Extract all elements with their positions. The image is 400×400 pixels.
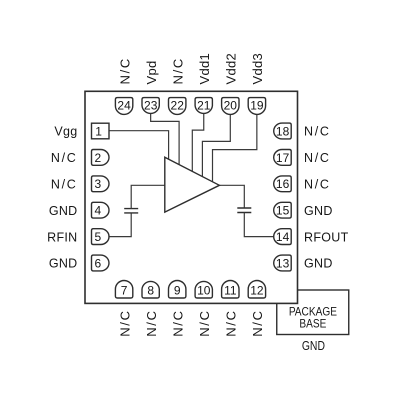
pin 17 pad (N/C) [274,150,292,166]
svg-text:15: 15 [276,204,290,218]
wire: pin 20 Vdd2 to amplifier [202,114,230,178]
svg-text:3: 3 [94,177,101,191]
pin 15 pad (GND) [274,202,292,218]
svg-text:23: 23 [144,99,158,113]
wire: C2 to pin 14 RFOUT [244,213,273,237]
net label Vgg (pin 1) [54,125,77,139]
svg-text:GND: GND [49,257,78,271]
net label N/C (pin 9) [170,309,185,337]
net label Vdd2 (pin 20) [224,53,239,85]
pin 12 pad (N/C) [248,281,265,299]
net label RFOUT (pin 14) [304,230,349,244]
pin 20 pad (Vdd2) [222,98,239,115]
svg-text:BASE: BASE [299,318,326,331]
svg-text:N/C: N/C [117,309,132,337]
svg-text:10: 10 [197,283,211,297]
net label GND (pin 15) [304,204,333,218]
svg-text:N/C: N/C [224,309,239,337]
svg-text:12: 12 [250,283,264,297]
svg-text:19: 19 [250,99,264,113]
wire: amplifier output to C2 [218,185,245,208]
svg-text:11: 11 [224,283,237,297]
package base label text [289,306,337,331]
pin 19 pad (Vdd3) [248,98,265,115]
net label N/C (pin 2) [51,151,78,165]
pin 9 pad (N/C) [169,281,186,298]
svg-text:22: 22 [171,99,185,113]
net label N/C (pin 11) [224,309,239,337]
svg-text:GND: GND [304,204,333,218]
package outline (QFN-24 body) [85,91,298,303]
net label RFIN (pin 5) [47,230,77,244]
pin 6 pad (GND) [92,255,109,271]
ground net label GND (package base) [302,339,325,353]
net label N/C (pin 3) [51,178,78,192]
net label N/C (pin 17) [304,151,331,165]
svg-text:N/C: N/C [51,151,78,165]
svg-text:N/C: N/C [304,151,331,165]
svg-text:GND: GND [302,339,325,353]
svg-text:GND: GND [49,204,78,218]
pin 16 pad (N/C) [274,176,292,192]
svg-text:N/C: N/C [170,57,185,85]
pin 7 pad (N/C) [115,281,132,298]
svg-text:8: 8 [147,283,154,297]
net label N/C (pin 16) [304,178,331,192]
net label GND (pin 13) [304,257,333,271]
pin 3 pad (N/C) [92,176,110,192]
pin 5 pad (RFIN) [92,229,110,245]
svg-text:Vdd3: Vdd3 [250,53,265,85]
svg-text:N/C: N/C [304,125,331,139]
svg-text:7: 7 [121,283,128,297]
wire: pin 19 Vdd3 to amplifier [213,114,257,183]
wire: C1 to amplifier input [131,185,166,208]
svg-text:5: 5 [94,230,101,244]
svg-text:16: 16 [276,177,290,191]
wire: pin 23 Vpd to amplifier [151,114,179,166]
svg-text:Vgg: Vgg [54,125,77,139]
svg-text:6: 6 [94,256,101,270]
pin 1 pad (Vgg) [92,123,110,139]
svg-text:N/C: N/C [51,178,78,192]
svg-text:RFOUT: RFOUT [304,230,349,244]
svg-text:2: 2 [94,151,101,165]
svg-text:13: 13 [276,256,290,270]
capacitor C2 (output DC block) [237,208,251,213]
pin 14 pad (RFOUT) [274,229,292,245]
pin 4 pad (GND) [92,202,110,218]
pin 13 pad (GND) [274,255,291,271]
svg-text:Vdd2: Vdd2 [224,53,239,85]
pin 2 pad (N/C) [92,150,110,166]
svg-text:RFIN: RFIN [47,230,77,244]
package base pad box [277,290,349,335]
capacitor C1 (input DC block) [124,209,138,213]
svg-text:9: 9 [174,283,181,297]
wire: pin 1 Vgg to amplifier [109,131,169,161]
svg-text:Vdd1: Vdd1 [197,53,212,85]
svg-text:21: 21 [197,99,211,113]
net label N/C (pin 10) [197,309,212,337]
net label Vpd (pin 23) [144,60,159,84]
net label Vdd1 (pin 21) [197,53,212,85]
svg-text:N/C: N/C [197,309,212,337]
net label N/C (pin 12) [250,309,265,337]
wire: pin 21 Vdd1 to amplifier [192,114,203,173]
pin 22 pad (N/C) [169,98,186,115]
net label Vdd3 (pin 19) [250,53,265,85]
svg-text:4: 4 [94,204,101,218]
pin 11 pad (N/C) [222,281,239,298]
net label N/C (pin 24) [117,57,132,85]
svg-text:N/C: N/C [170,309,185,337]
svg-text:14: 14 [276,230,290,244]
svg-text:20: 20 [224,99,238,113]
net label N/C (pin 8) [144,309,159,337]
net label N/C (pin 18) [304,125,331,139]
pin 24 pad (N/C) [115,98,132,115]
pin 10 pad (N/C) [195,281,212,298]
wire: pin 5 RFIN to C1 [108,213,131,237]
svg-text:N/C: N/C [304,178,331,192]
net label N/C (pin 22) [170,57,185,85]
svg-text:24: 24 [117,99,131,113]
svg-text:N/C: N/C [250,309,265,337]
svg-text:17: 17 [276,151,290,165]
net label GND (pin 4) [49,204,78,218]
net label GND (pin 6) [49,257,78,271]
svg-text:N/C: N/C [117,57,132,85]
pin 21 pad (Vdd1) [195,98,212,114]
svg-text:GND: GND [304,257,333,271]
svg-text:N/C: N/C [144,309,159,337]
svg-text:Vpd: Vpd [144,60,159,84]
pin 8 pad (N/C) [142,281,159,298]
net label N/C (pin 7) [117,309,132,337]
svg-text:18: 18 [276,124,290,138]
pin 23 pad (Vpd) [142,98,159,114]
svg-text:1: 1 [95,124,102,138]
pin 18 pad (N/C) [274,123,291,139]
amplifier A1 (gain stage triangle) [165,157,220,212]
